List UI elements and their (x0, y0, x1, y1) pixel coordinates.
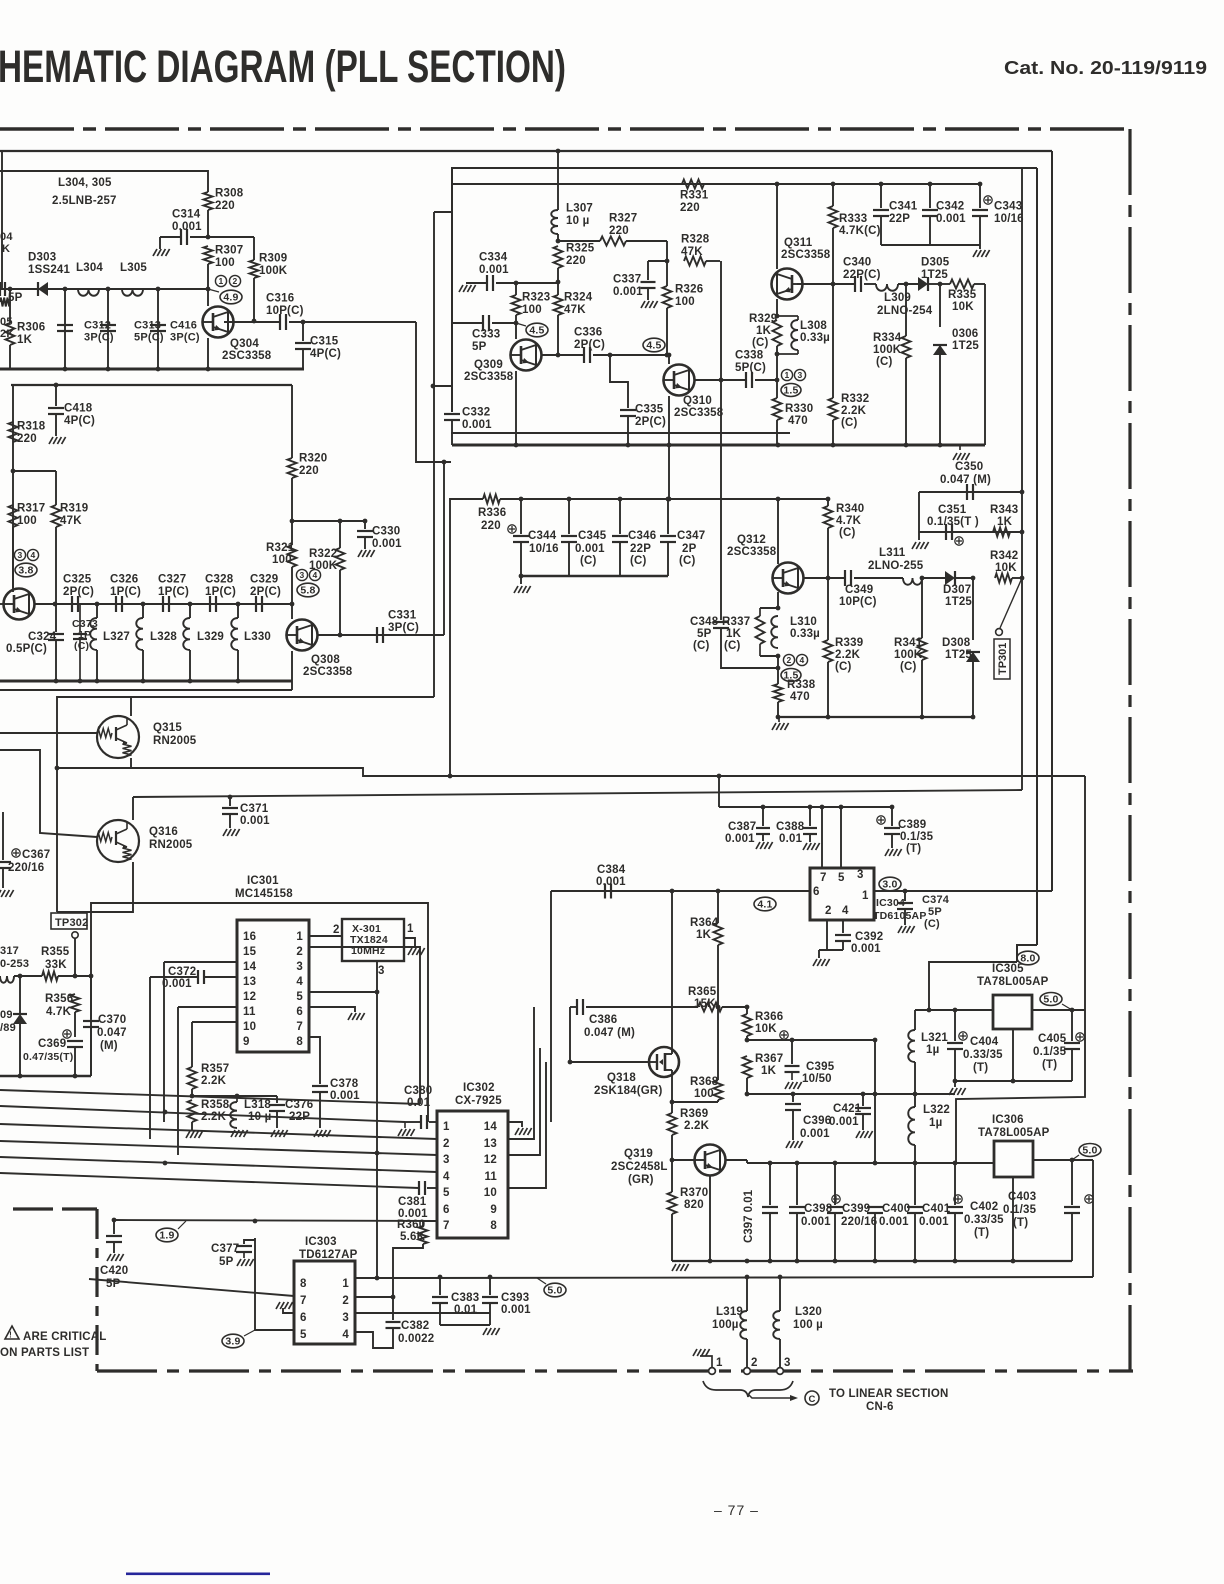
resistor R342 zig on wire (995, 574, 1012, 583)
svg-text:1K: 1K (17, 334, 33, 346)
svg-text:C351: C351 (938, 504, 967, 516)
capacitor C369 (67, 1040, 83, 1042)
svg-text:C350: C350 (955, 461, 983, 473)
svg-text:220/16: 220/16 (841, 1216, 877, 1228)
svg-text:D307: D307 (943, 584, 971, 596)
svg-text:C342: C342 (936, 201, 964, 213)
svg-text:220: 220 (299, 465, 319, 477)
wire 1.9 row (114, 1220, 437, 1221)
svg-text:220: 220 (680, 202, 700, 214)
resistor R322 (338, 519, 343, 524)
svg-text:1: 1 (443, 1121, 450, 1133)
svg-text:CN-6: CN-6 (866, 1401, 894, 1413)
svg-text:(T): (T) (973, 1062, 988, 1074)
svg-text:(C): (C) (724, 640, 741, 652)
svg-text:3.9: 3.9 (225, 1336, 240, 1348)
svg-text:5.0: 5.0 (547, 1285, 562, 1297)
node (106, 287, 111, 292)
Q310 emitter column to bank wire (668, 445, 670, 499)
inductor L311 (903, 578, 922, 585)
diode D305 (918, 277, 928, 291)
resistor R340 (826, 497, 831, 502)
outline wire around IC301 (91, 903, 428, 1122)
svg-text:RN2005: RN2005 (153, 735, 197, 747)
voltage 4.5 (526, 323, 548, 337)
svg-text:2.2K: 2.2K (201, 1075, 227, 1087)
svg-text:820: 820 (684, 1199, 704, 1211)
capacitor C403 (1071, 1160, 1073, 1205)
collector wire Q310 (694, 379, 746, 381)
svg-text:CX-7925: CX-7925 (455, 1095, 502, 1107)
svg-text:C420: C420 (100, 1265, 128, 1277)
svg-text:7: 7 (296, 1021, 303, 1033)
svg-text:7: 7 (300, 1295, 307, 1307)
svg-text:R326: R326 (675, 284, 703, 296)
regulator IC306 box (994, 1141, 1033, 1177)
svg-text:100K: 100K (259, 265, 288, 277)
capacitor C377 (244, 1240, 255, 1244)
IC306 ground lead (1012, 1177, 1014, 1261)
svg-text:3P(C): 3P(C) (84, 332, 114, 344)
capacitor C404 (954, 1010, 956, 1041)
resistor R341 (921, 578, 923, 638)
svg-text:220/16: 220/16 (8, 862, 44, 874)
svg-text:3: 3 (784, 1357, 791, 1369)
pin14 ground (508, 1122, 522, 1127)
svg-text:8: 8 (296, 1036, 303, 1048)
svg-text:1µ: 1µ (926, 1044, 939, 1056)
wire R328 down to Q310 collector (720, 261, 722, 380)
svg-text:0.001: 0.001 (851, 943, 881, 955)
svg-text:10K: 10K (952, 301, 974, 313)
emitter rail mixer (452, 444, 985, 447)
svg-text:C370: C370 (98, 1014, 126, 1026)
svg-text:5P: 5P (219, 1256, 234, 1268)
svg-text:3: 3 (857, 869, 864, 881)
svg-text:220: 220 (481, 520, 501, 532)
svg-text:R321: R321 (266, 542, 295, 554)
resistor R335 (940, 283, 950, 285)
ground rail Q312 (778, 717, 780, 722)
transistor Q316 RN2005 (97, 820, 139, 862)
capacitor C314 (159, 237, 161, 249)
op-amp IC303 box (294, 1261, 355, 1344)
voltage 4.1 (754, 897, 776, 911)
svg-text:CHEMATIC DIAGRAM (PLL SECTI: CHEMATIC DIAGRAM (PLL SECTION) (0, 41, 566, 92)
voltage 8.0 (1017, 951, 1039, 965)
top right cap bank C341 C342 C343 (879, 182, 884, 187)
svg-text:0.001: 0.001 (596, 876, 626, 888)
capacitor C338 (745, 372, 747, 388)
frame B right vertical (1036, 168, 1038, 945)
svg-text:2SC3358: 2SC3358 (222, 350, 272, 362)
capacitor C400 (874, 1163, 876, 1205)
vertical x875 (874, 1040, 876, 1163)
svg-text:R306: R306 (17, 322, 45, 334)
svg-text:(T): (T) (906, 843, 921, 855)
bottom rail Q312 block (778, 716, 975, 718)
base wire Q311 row (797, 283, 855, 285)
svg-text:(C): (C) (924, 918, 940, 930)
transistor Q305 (12, 527, 14, 588)
box line under rail (11, 384, 292, 386)
svg-text:C418: C418 (64, 403, 93, 415)
svg-text:7: 7 (820, 872, 827, 884)
wire IC306 out down to 5.0 rail (1092, 1160, 1094, 1277)
svg-text:R333: R333 (839, 213, 867, 225)
svg-text:R334: R334 (873, 332, 902, 344)
frame B jog to 8.0 (1017, 945, 1037, 962)
svg-text:C383: C383 (451, 1292, 479, 1304)
inductor L309 (876, 284, 898, 291)
svg-text:R318: R318 (17, 421, 46, 433)
svg-text:2: 2 (443, 1138, 450, 1150)
svg-text:R342: R342 (990, 550, 1018, 562)
svg-text:1K: 1K (997, 516, 1013, 528)
capacitor C405 (1071, 1010, 1073, 1041)
svg-text:R309: R309 (259, 253, 287, 265)
wire C386 row (570, 1006, 577, 1008)
svg-text:L320: L320 (795, 1306, 822, 1318)
svg-text:2: 2 (751, 1357, 758, 1369)
voltage 5.0 mid (544, 1283, 566, 1297)
svg-text:6: 6 (300, 1312, 307, 1324)
ground rail IC305 (955, 1080, 1072, 1082)
svg-text:C371: C371 (240, 803, 269, 815)
collector wire Q312 row (803, 577, 845, 579)
svg-text:0.47/35(T): 0.47/35(T) (23, 1051, 73, 1063)
capacitor C416b (54, 383, 59, 388)
svg-text:2: 2 (333, 924, 340, 936)
capacitor C421 (862, 1094, 864, 1106)
svg-text:C393: C393 (501, 1292, 529, 1304)
svg-text:R332: R332 (841, 393, 869, 405)
svg-text:3.0: 3.0 (882, 879, 897, 891)
svg-text:0.047 (M): 0.047 (M) (940, 474, 991, 486)
capacitor C401 (914, 1163, 916, 1205)
svg-text:3: 3 (296, 961, 303, 973)
svg-text:4.7K: 4.7K (46, 1006, 72, 1018)
frame A right vertical (1051, 151, 1053, 891)
svg-text:3: 3 (18, 550, 23, 560)
svg-text:C343: C343 (994, 201, 1022, 213)
capacitor C373 (79, 604, 81, 632)
svg-text:C330: C330 (372, 526, 400, 538)
svg-text:0.001: 0.001 (162, 978, 192, 990)
ground under rail (959, 445, 961, 450)
svg-text:47K: 47K (60, 515, 82, 527)
capacitor C370 (89, 974, 94, 979)
svg-text:10K: 10K (995, 562, 1017, 574)
svg-text:0.001: 0.001 (462, 419, 492, 431)
svg-text:D303: D303 (28, 252, 56, 264)
wire to IC303 pin5 (255, 1238, 294, 1330)
inductor L318 (192, 1095, 277, 1097)
svg-text:3.8: 3.8 (18, 565, 33, 577)
svg-text:R369: R369 (680, 1108, 708, 1120)
svg-text:22P: 22P (630, 543, 651, 555)
resistor R327 (600, 237, 626, 246)
svg-text:R327: R327 (609, 213, 637, 225)
svg-text:1.5: 1.5 (783, 385, 798, 397)
svg-text:MC145158: MC145158 (235, 888, 293, 900)
svg-text:2: 2 (296, 946, 303, 958)
svg-text:2P(C): 2P(C) (250, 586, 281, 598)
svg-text:2P(C): 2P(C) (63, 586, 94, 598)
junction wire (11, 469, 16, 474)
connector pins 1 2 3 (709, 1368, 716, 1375)
collector wire Q304 (224, 321, 280, 323)
ground rail top-left (0, 368, 304, 371)
svg-text:L310: L310 (790, 616, 817, 628)
resistor R357 (188, 1067, 197, 1089)
svg-text:8: 8 (490, 1220, 497, 1232)
regulator IC305 box (993, 995, 1032, 1029)
op-amp IC301 box (237, 920, 309, 1052)
svg-text:3: 3 (798, 370, 803, 380)
svg-text:C389: C389 (898, 819, 926, 831)
svg-text:C347: C347 (677, 530, 705, 542)
svg-text:0.33/35: 0.33/35 (964, 1214, 1004, 1226)
svg-text:(C): (C) (835, 661, 852, 673)
svg-text:4.9: 4.9 (223, 292, 238, 304)
capacitor C327 (162, 596, 164, 612)
svg-text:1T25: 1T25 (945, 649, 972, 661)
svg-text:C337: C337 (613, 274, 641, 286)
svg-text:2: 2 (825, 905, 832, 917)
voltage 3.0 (879, 877, 901, 891)
svg-text:Q311: Q311 (784, 237, 813, 249)
wire R335 down (984, 284, 986, 445)
svg-text:6: 6 (296, 1006, 303, 1018)
IC305 ground lead (1012, 1029, 1014, 1081)
wire row 1094 (747, 1093, 955, 1095)
Q310 collector to C348 vertical (720, 380, 722, 620)
svg-text:Cat. No. 20-119/9119: Cat. No. 20-119/9119 (1004, 57, 1207, 78)
svg-text:1T25: 1T25 (945, 596, 972, 608)
svg-text:1K: 1K (696, 929, 712, 941)
svg-text:C403: C403 (1008, 1191, 1036, 1203)
svg-text:6: 6 (443, 1204, 450, 1216)
wire (207, 264, 209, 289)
resistor R306 (8, 287, 13, 292)
svg-text:Q312: Q312 (737, 534, 766, 546)
svg-text:(C): (C) (841, 417, 858, 429)
svg-text:4.7K: 4.7K (836, 515, 862, 527)
svg-text:L328: L328 (150, 631, 177, 643)
frame B left vertical (451, 168, 453, 412)
svg-text:Q304: Q304 (230, 338, 259, 350)
svg-text:5.8: 5.8 (300, 585, 315, 597)
svg-text:RN2005: RN2005 (149, 839, 193, 851)
svg-text:C380: C380 (404, 1085, 432, 1097)
svg-text:C324: C324 (28, 631, 57, 643)
voltage 4.9 (220, 290, 242, 304)
inductor L308 (777, 315, 798, 317)
svg-text:22P(C): 22P(C) (843, 269, 881, 281)
svg-text:2.2K: 2.2K (201, 1111, 227, 1123)
wire R322 C330 (292, 520, 365, 522)
svg-text:0.01: 0.01 (779, 833, 803, 845)
svg-text:0.001: 0.001 (330, 1090, 360, 1102)
resistor R332 (831, 282, 836, 287)
transistor Q312 (776, 497, 781, 502)
svg-text:1: 1 (342, 1278, 349, 1290)
bus wires to IC302 (0, 1090, 420, 1104)
wire x1085 down to IC306 frame (956, 776, 1085, 1163)
resistor R326 (648, 260, 667, 262)
svg-text:100 µ: 100 µ (793, 1319, 823, 1331)
svg-text:C338: C338 (735, 350, 764, 362)
svg-text:ON PARTS LIST: ON PARTS LIST (0, 1347, 89, 1359)
wire (207, 210, 209, 237)
capacitor C316 (279, 314, 281, 330)
pin13 12 10 wires up (508, 1007, 534, 1139)
Q318 drain up (671, 891, 673, 1047)
transistor Q319 (672, 1159, 694, 1161)
svg-text:C372: C372 (168, 966, 196, 978)
capacitor C332 (431, 384, 436, 389)
svg-text:Q308: Q308 (311, 654, 340, 666)
test point TP302 (51, 913, 87, 929)
svg-text:K: K (2, 243, 10, 255)
svg-text:1P(C): 1P(C) (158, 586, 189, 598)
capacitor C337 (647, 261, 649, 280)
svg-text:04: 04 (0, 231, 13, 243)
Q319 collector (725, 1159, 747, 1161)
svg-text:10: 10 (484, 1187, 497, 1199)
svg-text:100K: 100K (894, 649, 923, 661)
node C335 (608, 353, 613, 358)
svg-text:C377: C377 (211, 1243, 239, 1255)
svg-text:100K: 100K (873, 344, 902, 356)
svg-text:R317: R317 (17, 503, 45, 515)
svg-text:100: 100 (675, 296, 695, 308)
svg-text:TA78L005AP: TA78L005AP (978, 1127, 1050, 1139)
svg-text:1: 1 (296, 931, 303, 943)
svg-text:C401: C401 (922, 1203, 951, 1215)
svg-text:2SC3358: 2SC3358 (727, 546, 777, 558)
svg-text:2SC3358: 2SC3358 (674, 407, 724, 419)
svg-text:R364: R364 (690, 917, 719, 929)
capacitor C347 (666, 497, 671, 502)
svg-text:R338: R338 (787, 679, 816, 691)
svg-text:R366: R366 (755, 1011, 783, 1023)
svg-text:(T): (T) (1013, 1217, 1028, 1229)
svg-text:1P(C): 1P(C) (110, 586, 141, 598)
svg-text:C392: C392 (855, 931, 883, 943)
svg-text:R365: R365 (688, 986, 717, 998)
svg-text:(C): (C) (900, 661, 917, 673)
svg-text:R358: R358 (201, 1099, 230, 1111)
capacitor C348 (713, 621, 729, 623)
capacitor C326 (115, 596, 117, 612)
svg-text:(C): (C) (876, 356, 893, 368)
frame A top line (0, 150, 1052, 152)
svg-text:0.047 (M): 0.047 (M) (584, 1027, 635, 1039)
svg-text:22P: 22P (889, 213, 910, 225)
Q319 emitter (709, 1176, 711, 1261)
svg-text:0.001: 0.001 (919, 1216, 949, 1228)
cap bank bottom rail (521, 575, 668, 577)
svg-text:100: 100 (522, 304, 542, 316)
svg-text:9: 9 (490, 1204, 497, 1216)
C386 wire to gate (570, 1007, 648, 1062)
resistor R358 (188, 1100, 197, 1122)
svg-text:C405: C405 (1038, 1033, 1067, 1045)
resistor R328 (684, 257, 706, 266)
svg-text:(GR): (GR) (628, 1174, 654, 1186)
main RF wire (0, 288, 208, 290)
resistor R319 (55, 471, 57, 505)
diode D308 vertical (972, 578, 974, 640)
svg-text:Q316: Q316 (149, 826, 178, 838)
Q318 source down (671, 1077, 673, 1102)
svg-text:0.001: 0.001 (725, 833, 755, 845)
ground rail C383 C393 (440, 1324, 490, 1326)
inductor L317 stub (0, 976, 14, 983)
svg-text:R367: R367 (755, 1053, 783, 1065)
capacitor C376 (276, 1096, 278, 1103)
svg-text:0.33/35: 0.33/35 (963, 1049, 1003, 1061)
svg-text:R324: R324 (564, 292, 593, 304)
left page-edge vertical (1, 151, 3, 289)
svg-text:0.0022: 0.0022 (398, 1333, 434, 1345)
svg-text:R328: R328 (681, 234, 710, 246)
capacitor C384 (604, 884, 606, 899)
svg-text:L311: L311 (879, 547, 906, 559)
svg-text:1: 1 (785, 370, 790, 380)
cap 5P stub (0, 282, 1, 296)
wire x1022 vertical (1021, 168, 1023, 790)
inductor L330 (237, 604, 239, 618)
svg-text:100µ: 100µ (712, 1319, 739, 1331)
Q316 collector to long wire (132, 797, 134, 820)
svg-text:R340: R340 (836, 503, 864, 515)
svg-text:5.0: 5.0 (1082, 1145, 1097, 1157)
svg-text:R331: R331 (680, 190, 709, 202)
svg-text:C349: C349 (845, 584, 873, 596)
svg-text:1: 1 (716, 1357, 723, 1369)
X301 wiring (309, 935, 342, 937)
capacitor C329 (255, 596, 257, 612)
resistor R339 (827, 578, 829, 640)
svg-text:1K: 1K (761, 1065, 777, 1077)
bottom rail TP302 area (0, 1075, 91, 1077)
dash-dot right border (1128, 129, 1131, 1371)
svg-text:C374: C374 (922, 894, 950, 906)
wire top feed (0, 171, 208, 192)
svg-text:100: 100 (17, 515, 37, 527)
node (156, 287, 161, 292)
svg-text:10/16: 10/16 (529, 543, 559, 555)
op-amp IC304 box (810, 868, 874, 920)
op-amp IC302 box (437, 1111, 508, 1238)
svg-text:IC302: IC302 (463, 1082, 495, 1094)
IC301 left pin wires (164, 961, 237, 963)
svg-text:IC301: IC301 (247, 875, 279, 887)
svg-text:ARE CRITICAL: ARE CRITICAL (23, 1331, 107, 1343)
resistor R308 (204, 192, 213, 210)
svg-text:C340: C340 (843, 257, 871, 269)
capacitor C315 (301, 320, 306, 325)
wire to Q316 base (0, 750, 97, 837)
Q316 emitter down (57, 862, 133, 912)
svg-text:L304, 305: L304, 305 (58, 177, 112, 189)
svg-text:4: 4 (800, 655, 805, 665)
inductor L321 (914, 1010, 916, 1030)
pins 3 4 and 5.8 (296, 569, 307, 580)
